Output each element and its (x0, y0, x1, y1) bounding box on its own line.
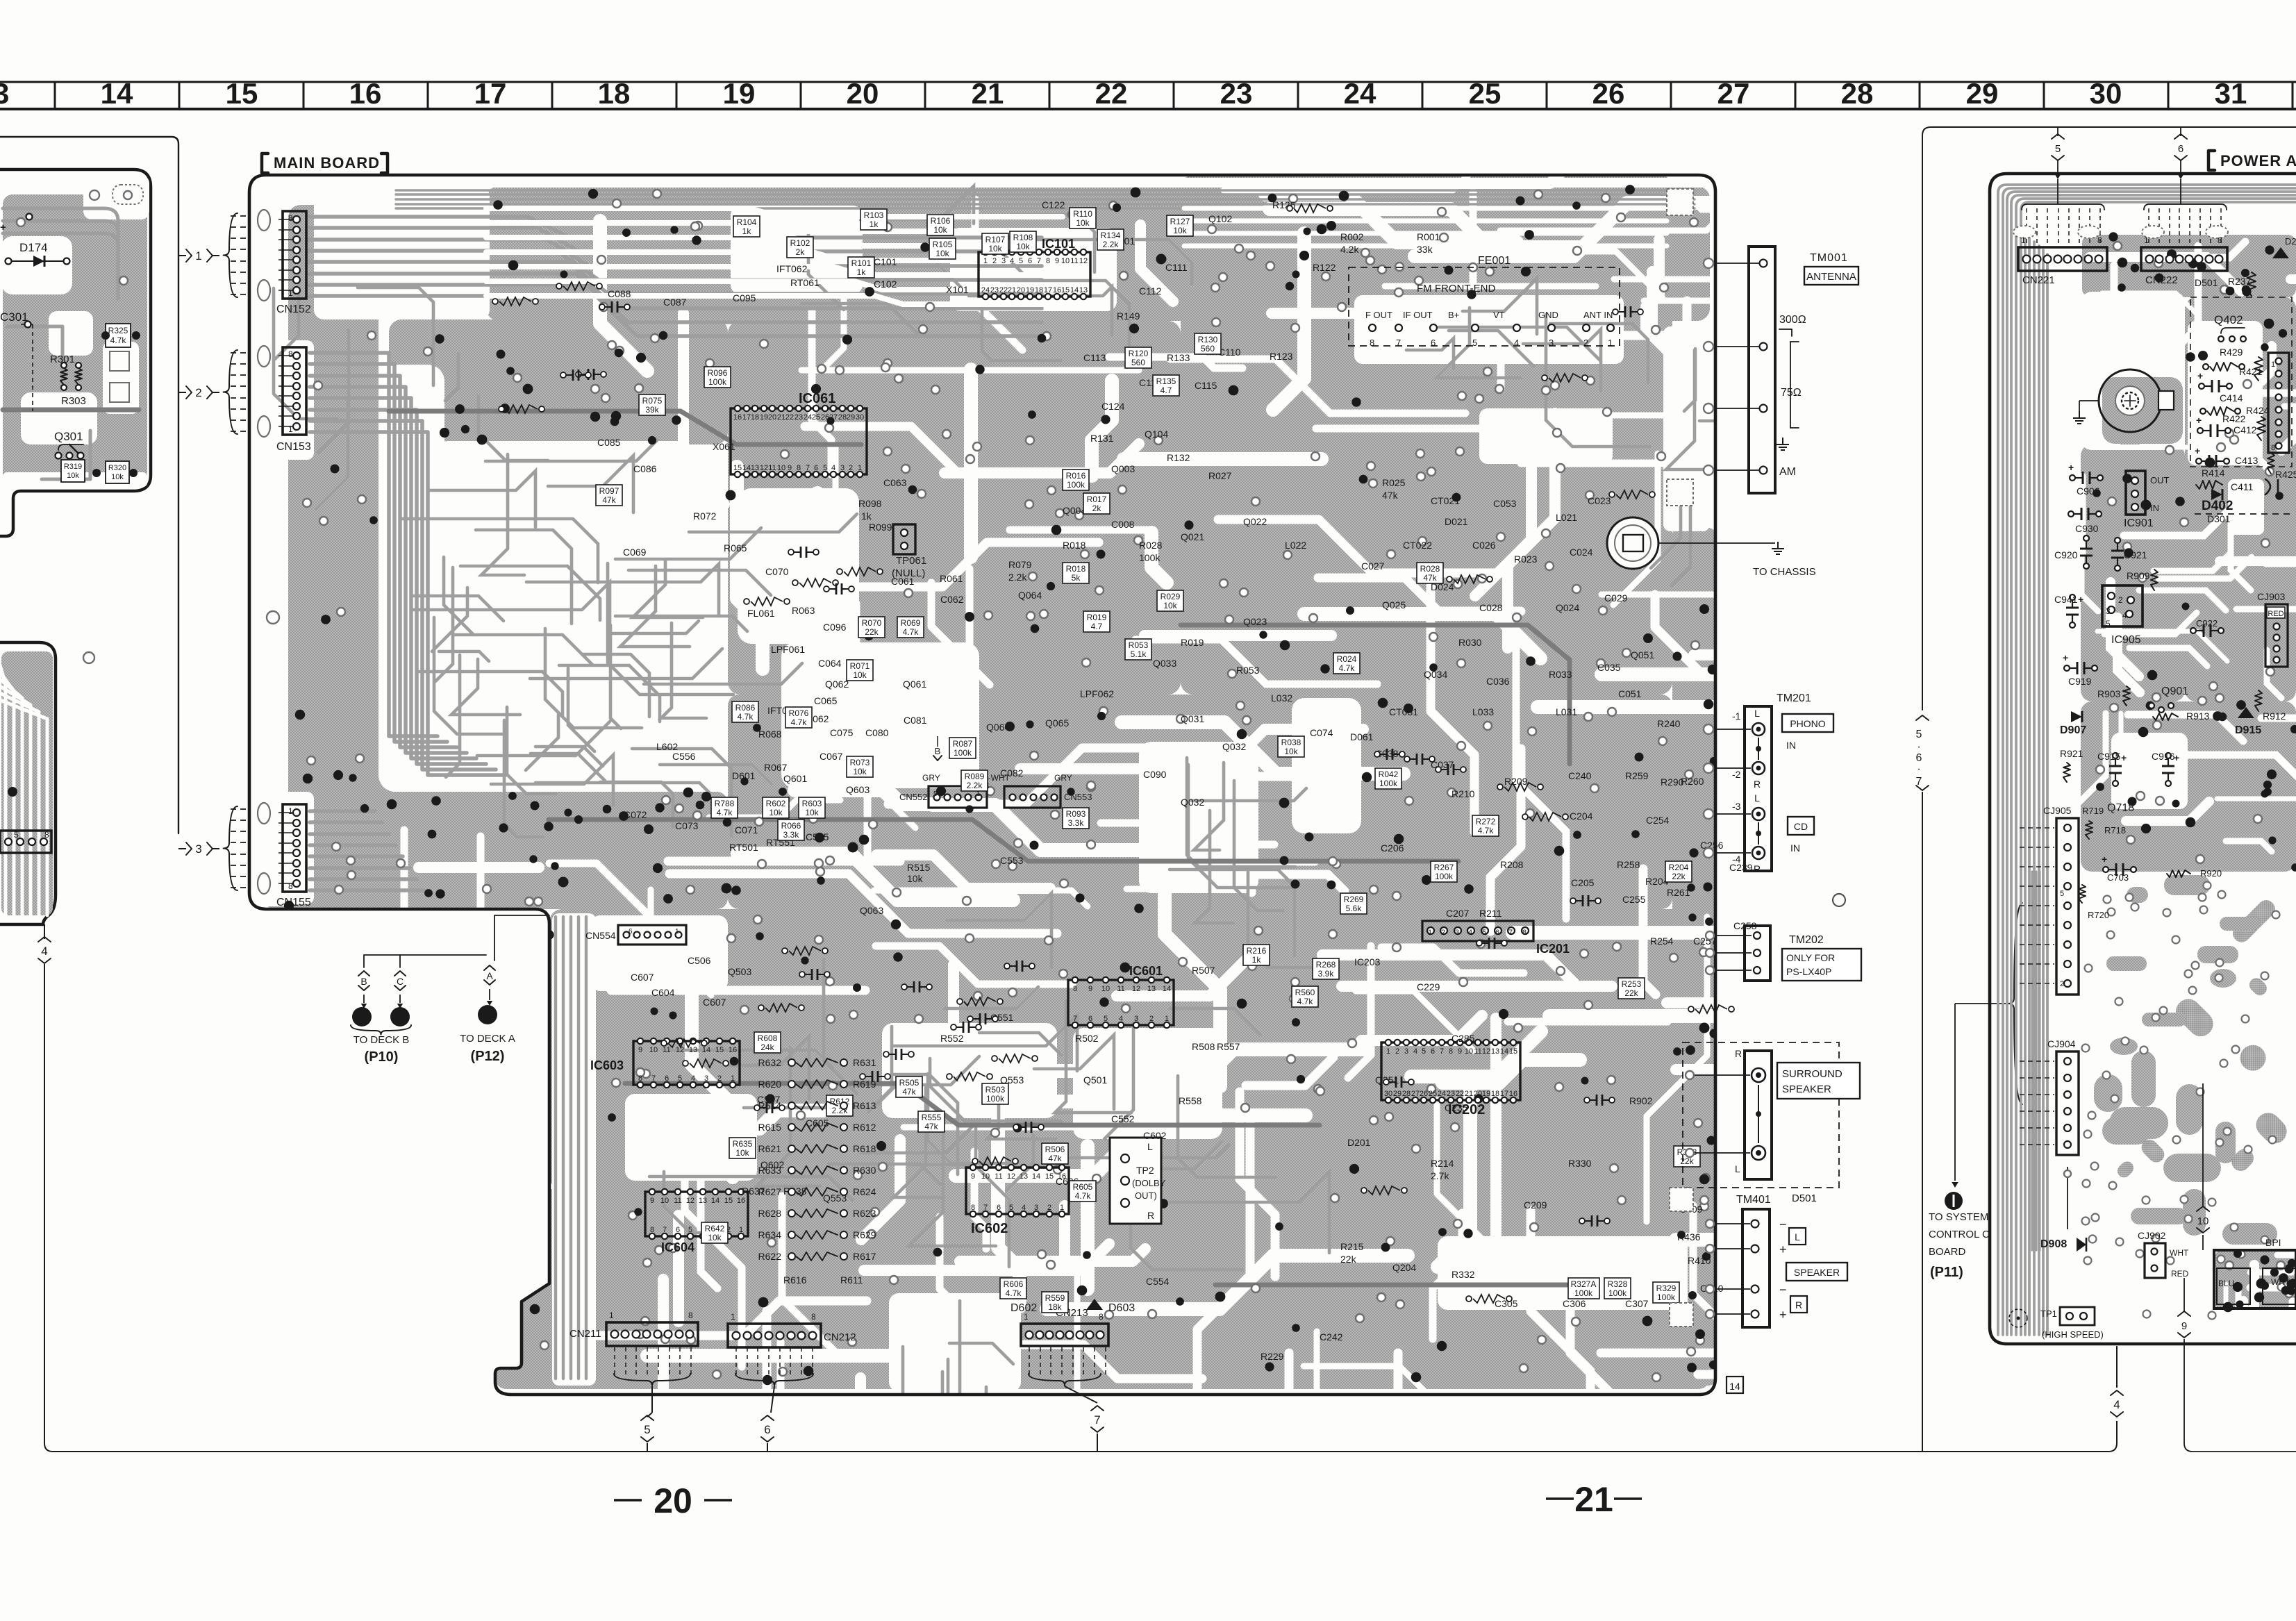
svg-text:Q204: Q204 (1392, 1262, 1416, 1273)
svg-text:CN554: CN554 (585, 930, 616, 941)
svg-text:FE001: FE001 (1478, 255, 1511, 267)
svg-text:10k: 10k (708, 1233, 722, 1242)
svg-text:5.1k: 5.1k (1131, 649, 1147, 659)
svg-text:C207: C207 (1446, 908, 1470, 919)
svg-text:C555: C555 (806, 831, 829, 842)
svg-text:R555: R555 (922, 1113, 942, 1122)
bus traces from CN155 (310, 809, 375, 813)
connector CN153 (283, 347, 306, 435)
svg-text:22: 22 (1095, 77, 1128, 110)
svg-text:BLU: BLU (2218, 1279, 2234, 1288)
svg-text:1: 1 (1165, 1015, 1169, 1023)
svg-text:15: 15 (1061, 286, 1070, 294)
svg-text:Q064: Q064 (1018, 590, 1042, 601)
svg-text:R030: R030 (1458, 637, 1482, 648)
IC IC101 (979, 252, 1090, 297)
svg-text:CJ902: CJ902 (2138, 1230, 2166, 1241)
svg-text:+: + (2196, 415, 2202, 426)
svg-text:R215: R215 (1340, 1241, 1364, 1252)
svg-text:·: · (1917, 741, 1920, 753)
svg-text:10: 10 (1101, 985, 1110, 993)
svg-text:8: 8 (797, 464, 801, 472)
right board outline (1990, 174, 2296, 1344)
white clearings right board (2188, 321, 2263, 465)
IC905 (2102, 585, 2143, 626)
svg-text:C204: C204 (1570, 810, 1593, 822)
svg-text:R089: R089 (965, 772, 985, 781)
svg-text:6: 6 (997, 1204, 1001, 1212)
svg-text:CN221: CN221 (2022, 274, 2055, 286)
svg-text:16: 16 (729, 1046, 737, 1054)
svg-text:R209: R209 (1504, 776, 1528, 787)
svg-text:2k: 2k (796, 247, 806, 257)
svg-text:1: 1 (2144, 235, 2149, 245)
svg-text:C209: C209 (1524, 1199, 1547, 1211)
svg-text:R208: R208 (1500, 859, 1524, 870)
svg-text:R602: R602 (766, 799, 786, 808)
svg-text:C506: C506 (688, 955, 711, 966)
svg-text:C916: C916 (2152, 751, 2175, 762)
svg-text:27: 27 (829, 413, 838, 422)
bus traces from CN152 (310, 217, 1042, 238)
box 14 (1727, 1377, 1743, 1393)
svg-text:ANTENNA: ANTENNA (1806, 271, 1856, 283)
svg-text:2: 2 (1441, 929, 1445, 937)
svg-text:R320: R320 (108, 464, 126, 472)
svg-text:C411: C411 (2231, 481, 2254, 492)
svg-text:13: 13 (1020, 1172, 1028, 1181)
page number 20 (614, 1499, 642, 1502)
svg-text:8: 8 (2097, 235, 2102, 245)
svg-text:IN: IN (1786, 740, 1796, 751)
svg-text:L022: L022 (1285, 540, 1306, 551)
svg-text:18: 18 (751, 413, 759, 422)
svg-text:R019: R019 (1181, 637, 1204, 648)
svg-text:CN211: CN211 (569, 1328, 601, 1340)
svg-text:R615: R615 (758, 1122, 782, 1133)
scattered discrete symbols (794, 551, 801, 553)
svg-text:Q503: Q503 (728, 966, 751, 977)
svg-text:AM: AM (1779, 466, 1796, 478)
svg-text:R290: R290 (1661, 776, 1684, 788)
svg-text:10: 10 (660, 1197, 669, 1205)
svg-text:6: 6 (676, 1226, 680, 1234)
TO DECK B brace (351, 1025, 411, 1035)
svg-text:2: 2 (992, 257, 997, 265)
svg-text:5k: 5k (1072, 573, 1081, 583)
svg-text:4.7k: 4.7k (903, 627, 920, 637)
svg-text:2.2k: 2.2k (1103, 240, 1120, 249)
svg-text:7: 7 (663, 1226, 667, 1234)
svg-text:3: 3 (704, 1074, 708, 1083)
surround speaker block D501 (1683, 1042, 1839, 1188)
IC IC202 (1381, 1042, 1520, 1100)
svg-text:R099: R099 (869, 522, 892, 533)
svg-text:CN212: CN212 (824, 1331, 856, 1343)
svg-text:Q003: Q003 (1111, 463, 1135, 474)
svg-text:1: 1 (195, 249, 201, 263)
svg-text:C553: C553 (1000, 855, 1024, 866)
svg-text:26: 26 (1420, 1090, 1428, 1098)
IC IC201 (1422, 921, 1533, 941)
dark jumper traces (389, 411, 861, 444)
svg-text:22k: 22k (1672, 872, 1686, 881)
svg-text:C930: C930 (2075, 523, 2099, 534)
svg-text:+: + (2078, 594, 2083, 605)
svg-text:CN553: CN553 (1064, 792, 1092, 802)
svg-text:100k: 100k (954, 748, 972, 758)
wire 7 break (1091, 1406, 1104, 1411)
switch pads (110, 351, 129, 371)
svg-text:C026: C026 (1472, 540, 1496, 551)
solder dots (558, 877, 569, 888)
svg-text:75Ω: 75Ω (1781, 387, 1802, 399)
svg-text:+: + (2197, 370, 2203, 381)
svg-text:14: 14 (1032, 1172, 1040, 1181)
svg-text:R720: R720 (2088, 910, 2109, 920)
svg-text:20: 20 (847, 77, 879, 110)
svg-text:R902: R902 (1629, 1095, 1653, 1106)
svg-text:R098: R098 (858, 498, 882, 509)
svg-text:22: 22 (999, 286, 1008, 294)
svg-text:CT031: CT031 (1389, 706, 1418, 717)
svg-text:R623: R623 (853, 1208, 876, 1219)
svg-text:4.7k: 4.7k (717, 808, 733, 817)
svg-text:IC901: IC901 (2124, 517, 2154, 529)
svg-text:R621: R621 (758, 1143, 782, 1154)
svg-text:21: 21 (972, 77, 1004, 110)
svg-text:6: 6 (814, 464, 818, 472)
svg-text:C061: C061 (891, 576, 915, 587)
svg-text:+: + (2195, 445, 2200, 456)
svg-text:1: 1 (288, 288, 293, 298)
svg-text:13: 13 (0, 77, 9, 110)
svg-text:R127: R127 (1170, 217, 1190, 226)
svg-text:C065: C065 (814, 695, 838, 706)
svg-text:Q021: Q021 (1181, 531, 1204, 542)
svg-text:R261: R261 (1667, 887, 1690, 898)
svg-text:R552: R552 (940, 1033, 964, 1044)
svg-text:8: 8 (811, 1312, 816, 1322)
svg-text:L033: L033 (1472, 706, 1494, 717)
svg-text:GRY: GRY (1054, 773, 1072, 783)
svg-text:R632: R632 (758, 1057, 782, 1068)
svg-text:R204: R204 (1669, 863, 1689, 872)
svg-text:C206: C206 (1381, 842, 1404, 854)
svg-text:C: C (397, 1012, 404, 1024)
svg-text:9: 9 (971, 1172, 975, 1181)
svg-text:PHONO: PHONO (1790, 718, 1825, 729)
connector CN552 (929, 786, 987, 808)
svg-text:TP061: TP061 (896, 555, 926, 567)
svg-text:R075: R075 (642, 396, 663, 406)
svg-text:R507: R507 (1192, 965, 1215, 976)
test point TP061 (893, 524, 915, 554)
svg-text:TP2: TP2 (1136, 1165, 1154, 1176)
svg-text:19: 19 (723, 77, 756, 110)
IC IC602 (966, 1167, 1069, 1214)
dotted circle (2009, 1309, 2027, 1327)
svg-text:39k: 39k (645, 405, 659, 415)
svg-text:R260: R260 (1681, 776, 1704, 787)
svg-text:GRY: GRY (922, 773, 940, 783)
svg-text:7: 7 (651, 1074, 656, 1083)
svg-text:47k: 47k (924, 1122, 938, 1131)
IC IC061 (731, 408, 867, 474)
svg-text:10k: 10k (805, 808, 819, 817)
svg-text:10: 10 (981, 1172, 990, 1181)
svg-text:R515: R515 (907, 862, 931, 873)
svg-text:L: L (1754, 792, 1760, 804)
svg-text:R329: R329 (1656, 1283, 1677, 1293)
node 1 bracket (178, 255, 186, 256)
svg-text:R921: R921 (2060, 748, 2083, 759)
svg-text:R503: R503 (985, 1085, 1006, 1095)
svg-text:29: 29 (1393, 1090, 1401, 1098)
oval pads near CN152 (258, 210, 270, 231)
wire 5-6-7 break (1922, 792, 1923, 1452)
svg-text:1: 1 (675, 928, 679, 936)
fiducial squares (1667, 189, 1693, 215)
svg-text:10: 10 (1061, 257, 1070, 265)
svg-text:CJ903: CJ903 (2257, 591, 2286, 602)
svg-text:B+: B+ (1448, 310, 1459, 320)
svg-text:3: 3 (840, 464, 845, 472)
svg-text:100k: 100k (1379, 779, 1398, 788)
C920 (2086, 541, 2087, 549)
svg-text:31: 31 (2215, 77, 2247, 110)
svg-text:LPF062: LPF062 (1080, 688, 1114, 699)
svg-text:Q051: Q051 (1631, 649, 1654, 660)
svg-text:15: 15 (715, 1046, 724, 1054)
svg-text:1: 1 (609, 1311, 614, 1320)
svg-text:4.7k: 4.7k (1339, 663, 1356, 673)
svg-text:11: 11 (1070, 257, 1078, 265)
svg-text:R107: R107 (985, 235, 1006, 244)
svg-text:Q033: Q033 (1153, 658, 1176, 669)
svg-text:R066: R066 (781, 821, 801, 831)
right board pours (2082, 235, 2296, 297)
svg-text:1: 1 (2271, 360, 2275, 369)
svg-text:22k: 22k (1624, 988, 1638, 998)
svg-text:IC905: IC905 (2111, 634, 2141, 646)
svg-text:14: 14 (101, 77, 133, 110)
svg-text:7: 7 (1094, 1413, 1100, 1427)
svg-text:24: 24 (1344, 77, 1376, 110)
svg-text:30: 30 (1384, 1090, 1392, 1098)
svg-text:10k: 10k (1163, 601, 1177, 610)
svg-text:C919: C919 (2068, 676, 2092, 687)
svg-text:IF OUT: IF OUT (1403, 310, 1433, 320)
svg-text:15: 15 (226, 77, 258, 110)
svg-text:10k: 10k (853, 767, 867, 776)
svg-text:R073: R073 (850, 758, 870, 767)
svg-text:5: 5 (2055, 143, 2061, 155)
svg-text:560: 560 (1131, 358, 1145, 367)
svg-text:C053: C053 (1493, 498, 1517, 509)
svg-text:8: 8 (1370, 338, 1374, 348)
svg-text:5: 5 (644, 1423, 650, 1436)
svg-text:27: 27 (1717, 77, 1750, 110)
svg-text:10k: 10k (111, 473, 124, 481)
svg-text:R061: R061 (940, 573, 963, 584)
svg-text:CN152: CN152 (276, 304, 311, 315)
svg-text:C124: C124 (1101, 401, 1125, 412)
svg-text:15: 15 (1045, 1172, 1054, 1181)
svg-text:R211: R211 (1479, 908, 1502, 919)
svg-text:13: 13 (751, 464, 759, 472)
svg-text:8: 8 (288, 881, 293, 891)
svg-text:1: 1 (288, 806, 293, 816)
svg-text:F OUT: F OUT (1365, 310, 1392, 320)
svg-text:D402: D402 (2202, 499, 2233, 513)
svg-text:C063: C063 (883, 477, 907, 488)
svg-text:R123: R123 (1270, 351, 1293, 362)
svg-text:Q062: Q062 (825, 679, 849, 690)
svg-text:5: 5 (1009, 1204, 1013, 1212)
svg-text:B: B (360, 976, 367, 987)
svg-text:4.2k: 4.2k (1340, 244, 1359, 255)
svg-text:IC061: IC061 (799, 391, 835, 406)
svg-text:R038: R038 (1281, 738, 1301, 747)
svg-text:9: 9 (1055, 257, 1059, 265)
main board copper pours (486, 186, 1710, 321)
svg-text:+: + (2102, 854, 2107, 865)
svg-text:L: L (1735, 1163, 1740, 1174)
svg-text:3: 3 (1034, 1204, 1038, 1212)
svg-text:TP1: TP1 (2040, 1308, 2057, 1319)
svg-text:R087: R087 (953, 739, 973, 749)
brace under CN213 (1029, 1374, 1101, 1386)
svg-text:RED: RED (2268, 610, 2283, 618)
svg-text:1: 1 (1060, 1204, 1064, 1212)
svg-text:14: 14 (742, 464, 751, 472)
svg-text:-1: -1 (1732, 710, 1741, 722)
svg-text:·: · (1917, 763, 1920, 775)
svg-text:18k: 18k (1048, 1302, 1062, 1312)
svg-text:47k: 47k (1423, 573, 1437, 583)
svg-text:26: 26 (1592, 77, 1625, 110)
svg-text:5: 5 (1916, 729, 1922, 740)
svg-text:R254: R254 (1650, 936, 1674, 947)
ruler strip (0, 81, 2296, 83)
svg-text:X101: X101 (946, 284, 969, 295)
svg-text:12: 12 (1007, 1172, 1015, 1181)
svg-text:7: 7 (1037, 257, 1041, 265)
svg-text:8: 8 (44, 830, 49, 840)
svg-text:TO DECK A: TO DECK A (460, 1033, 515, 1045)
svg-text:21: 21 (777, 413, 785, 422)
node A (deck) (484, 965, 495, 970)
lower-left board copper traces (1, 651, 53, 915)
svg-text:Q023: Q023 (1243, 616, 1267, 627)
routing channels (1265, 194, 1517, 242)
svg-text:10: 10 (2197, 1215, 2209, 1227)
svg-text:SURROUND: SURROUND (1782, 1068, 1842, 1080)
svg-text:R635: R635 (733, 1139, 753, 1149)
label POWER AM (clipped) (2208, 151, 2215, 170)
svg-text:12: 12 (760, 464, 768, 472)
svg-text:R627: R627 (758, 1186, 782, 1197)
svg-text:C941: C941 (2054, 594, 2078, 605)
svg-text:5: 5 (2106, 619, 2111, 629)
svg-text:5: 5 (2060, 890, 2064, 898)
svg-text:R132: R132 (1167, 452, 1190, 463)
svg-text:R624: R624 (853, 1186, 876, 1197)
svg-text:R505: R505 (899, 1078, 920, 1088)
svg-text:C086: C086 (633, 463, 657, 474)
svg-text:C922: C922 (2196, 618, 2218, 629)
svg-text:C111: C111 (1165, 262, 1188, 273)
svg-text:R076: R076 (789, 708, 809, 718)
svg-text:IN: IN (1790, 842, 1800, 854)
svg-text:D601: D601 (732, 770, 756, 781)
margin via (267, 611, 279, 624)
svg-text:CONTROL C: CONTROL C (1929, 1229, 1990, 1240)
svg-text:C413: C413 (2235, 455, 2258, 466)
svg-text:10k: 10k (1284, 747, 1298, 756)
svg-text:R328: R328 (1608, 1279, 1628, 1289)
svg-text:R628: R628 (758, 1208, 782, 1219)
svg-text:1: 1 (1428, 929, 1432, 937)
svg-text:R104: R104 (737, 217, 757, 227)
svg-text:R216: R216 (1247, 946, 1267, 956)
svg-text:D907: D907 (2060, 724, 2086, 736)
via hole (83, 652, 94, 663)
svg-text:9: 9 (650, 1197, 654, 1205)
svg-text:19: 19 (760, 413, 768, 422)
svg-text:10k: 10k (1076, 218, 1090, 228)
svg-text:IC601: IC601 (1129, 964, 1163, 978)
svg-text:C036: C036 (1486, 676, 1510, 687)
svg-text:9: 9 (788, 464, 792, 472)
svg-text:300Ω: 300Ω (1779, 314, 1806, 326)
node B (deck) (358, 971, 369, 976)
svg-text:22k: 22k (1340, 1254, 1357, 1265)
svg-text:24: 24 (1438, 1090, 1446, 1098)
svg-text:R436: R436 (1677, 1231, 1701, 1242)
svg-text:R063: R063 (792, 605, 815, 616)
svg-text:10k: 10k (988, 244, 1002, 253)
svg-text:10k: 10k (1173, 226, 1187, 235)
svg-text:BOARD: BOARD (1929, 1246, 1966, 1258)
svg-text:Q064: Q064 (986, 722, 1010, 733)
svg-text:13: 13 (1147, 985, 1156, 993)
svg-text:8: 8 (638, 1074, 642, 1083)
svg-text:Q063: Q063 (860, 905, 883, 916)
svg-text:CD: CD (1794, 821, 1808, 832)
svg-text:TO SYSTEM: TO SYSTEM (1929, 1211, 1988, 1223)
svg-text:24k: 24k (760, 1042, 774, 1052)
C916 (2168, 758, 2169, 766)
svg-text:R106: R106 (931, 216, 951, 226)
white clearings (253, 178, 1710, 188)
svg-text:4.7: 4.7 (1091, 622, 1103, 631)
svg-text:D908: D908 (2040, 1238, 2067, 1250)
wire 5 stub (2057, 127, 2058, 136)
svg-text:4.7k: 4.7k (1006, 1288, 1022, 1298)
terminal TM201 (1745, 706, 1772, 871)
svg-text:10k: 10k (735, 1148, 749, 1158)
svg-text:C069: C069 (623, 547, 647, 558)
svg-text:R: R (1795, 1299, 1802, 1311)
svg-text:1k: 1k (742, 226, 752, 236)
svg-text:24: 24 (804, 413, 812, 422)
top wire into right board (1922, 127, 2296, 710)
svg-text:R429: R429 (2220, 347, 2243, 358)
svg-text:8: 8 (2218, 235, 2222, 245)
svg-text:R: R (1735, 1048, 1742, 1059)
